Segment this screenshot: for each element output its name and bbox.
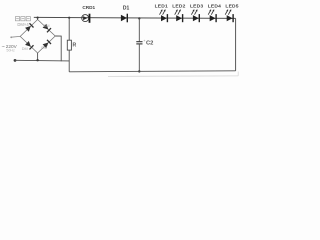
- node: junction C2 top on rail: [138, 17, 140, 19]
- node: AC neutral terminal dot: [14, 59, 17, 62]
- bridge diode lower-left (DM): [25, 41, 33, 49]
- wire: right side drop: [235, 18, 237, 70]
- diode D1: [121, 14, 127, 23]
- bridge rectifier diamond outline: [20, 20, 55, 54]
- svg-text:DM×4: DM×4: [17, 22, 29, 27]
- wire: AC neutral horizontal run: [15, 59, 69, 62]
- svg-text:CRD1: CRD1: [82, 5, 95, 10]
- resistor R box: [67, 40, 71, 50]
- capacitor C2 plates: [136, 42, 142, 44]
- wire: R bottom lead down to bottom bus: [68, 50, 70, 72]
- node: junction C2 bottom on bus: [138, 70, 140, 72]
- svg-text:LED5: LED5: [225, 3, 238, 9]
- node: junction bridge top on rail: [37, 17, 39, 19]
- svg-text:LED2: LED2: [172, 3, 185, 9]
- bridge diode lower-right (DM): [43, 40, 51, 48]
- wire: bottom bus: [69, 71, 235, 72]
- wire: bridge top corner stub: [37, 18, 39, 20]
- svg-text:LED1: LED1: [155, 3, 168, 9]
- bridge diode upper-left (DM): [25, 23, 33, 31]
- LED LED3 symbol: [191, 9, 199, 22]
- LED LED5 symbol: [225, 9, 233, 22]
- svg-text:R: R: [73, 42, 77, 48]
- wire: AC live lead to bridge left corner: [10, 36, 20, 38]
- svg-text:LED3: LED3: [190, 3, 203, 9]
- svg-text:50Hz: 50Hz: [6, 49, 15, 53]
- node: junction R top on rail: [68, 17, 70, 19]
- svg-text:DM: DM: [41, 46, 47, 50]
- LED LED2 symbol: [175, 9, 183, 22]
- label ~220V 50Hz: [2, 44, 18, 53]
- wire: bridge right corner drop to neutral: [55, 36, 61, 61]
- LED LED1 symbol: [160, 9, 168, 22]
- wire: R top lead: [68, 18, 70, 41]
- scan shadow border bottom-right: [108, 72, 238, 77]
- CRD1 current regulating diode: circle + triangle + bar: [82, 14, 90, 23]
- svg-text:LED4: LED4: [208, 3, 221, 9]
- svg-text:DM: DM: [22, 47, 28, 51]
- wire: top rail: [34, 17, 236, 18]
- svg-text:C2: C2: [146, 40, 153, 46]
- wire: bridge bottom corner to neutral, junction dot: [36, 53, 38, 61]
- bridge diode upper-right (DM): [43, 24, 51, 32]
- wire: C2 top lead: [138, 18, 140, 41]
- wire: C2 bottom lead: [138, 44, 140, 72]
- svg-text:DM: DM: [44, 24, 50, 28]
- LED LED4 symbol: [208, 9, 216, 22]
- label: bridge text 整流桥 (simulated CJK): [15, 17, 30, 21]
- svg-text:~: ~: [2, 45, 5, 51]
- svg-text:D1: D1: [123, 6, 130, 12]
